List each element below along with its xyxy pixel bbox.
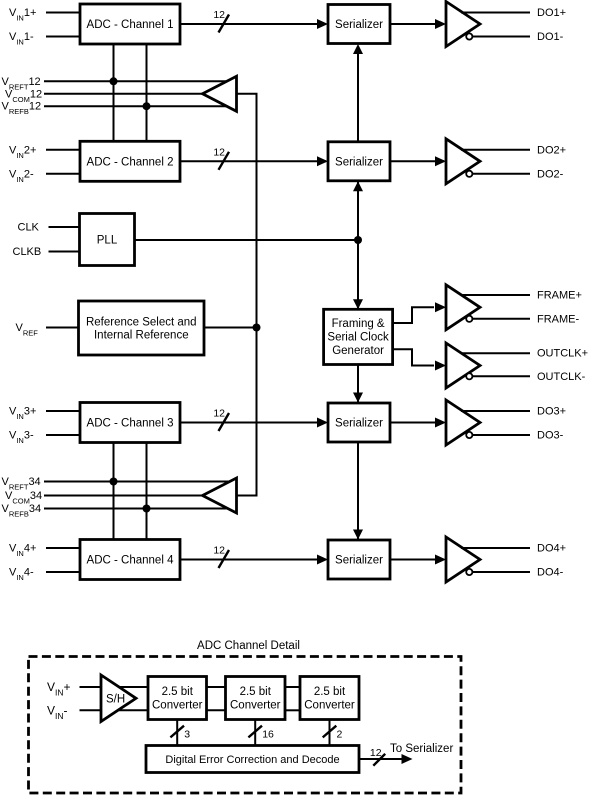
svg-text:CLK: CLK — [18, 222, 40, 234]
svg-text:12: 12 — [213, 408, 225, 420]
svg-text:Digital Error Correction and D: Digital Error Correction and Decode — [165, 754, 339, 766]
svg-text:To Serializer: To Serializer — [390, 743, 453, 755]
svg-text:Serializer: Serializer — [335, 156, 383, 168]
svg-text:CLKB: CLKB — [13, 246, 42, 258]
svg-text:ADC - Channel 4: ADC - Channel 4 — [87, 555, 175, 567]
svg-text:DO4-: DO4- — [537, 567, 564, 579]
svg-text:DO2+: DO2+ — [537, 144, 566, 156]
svg-text:Converter: Converter — [304, 699, 355, 711]
svg-text:Internal Reference: Internal Reference — [94, 330, 189, 342]
svg-text:Reference Select and: Reference Select and — [86, 316, 197, 328]
svg-text:OUTCLK-: OUTCLK- — [537, 371, 586, 383]
svg-text:PLL: PLL — [97, 235, 118, 247]
svg-text:ADC - Channel 1: ADC - Channel 1 — [87, 19, 174, 31]
svg-text:ADC Channel Detail: ADC Channel Detail — [197, 640, 300, 652]
svg-text:DO4+: DO4+ — [537, 543, 566, 555]
svg-text:3: 3 — [184, 729, 190, 741]
svg-text:DO1+: DO1+ — [537, 7, 566, 19]
svg-text:OUTCLK+: OUTCLK+ — [537, 348, 588, 360]
svg-text:12: 12 — [213, 9, 225, 21]
svg-text:Converter: Converter — [230, 699, 281, 711]
svg-text:2.5 bit: 2.5 bit — [314, 686, 346, 698]
svg-text:Converter: Converter — [152, 699, 203, 711]
svg-text:12: 12 — [370, 747, 382, 759]
svg-text:Serializer: Serializer — [335, 19, 383, 31]
svg-text:16: 16 — [262, 729, 274, 741]
svg-text:Framing &: Framing & — [332, 318, 385, 330]
svg-text:FRAME+: FRAME+ — [537, 290, 582, 302]
svg-text:Generator: Generator — [332, 345, 384, 357]
svg-text:12: 12 — [213, 146, 225, 158]
svg-text:DO2-: DO2- — [537, 168, 564, 180]
svg-text:2.5 bit: 2.5 bit — [240, 686, 272, 698]
svg-text:DO1-: DO1- — [537, 31, 564, 43]
svg-text:DO3+: DO3+ — [537, 406, 566, 418]
svg-text:12: 12 — [213, 545, 225, 557]
svg-text:Serializer: Serializer — [335, 418, 383, 430]
svg-text:2.5 bit: 2.5 bit — [162, 686, 194, 698]
svg-text:FRAME-: FRAME- — [537, 313, 580, 325]
svg-text:ADC - Channel 3: ADC - Channel 3 — [87, 418, 174, 430]
svg-text:2: 2 — [337, 729, 343, 741]
svg-text:S/H: S/H — [106, 693, 125, 705]
svg-text:Serial Clock: Serial Clock — [327, 332, 389, 344]
svg-text:Serializer: Serializer — [335, 555, 383, 567]
svg-text:ADC - Channel 2: ADC - Channel 2 — [87, 156, 174, 168]
svg-text:DO3-: DO3- — [537, 430, 564, 442]
